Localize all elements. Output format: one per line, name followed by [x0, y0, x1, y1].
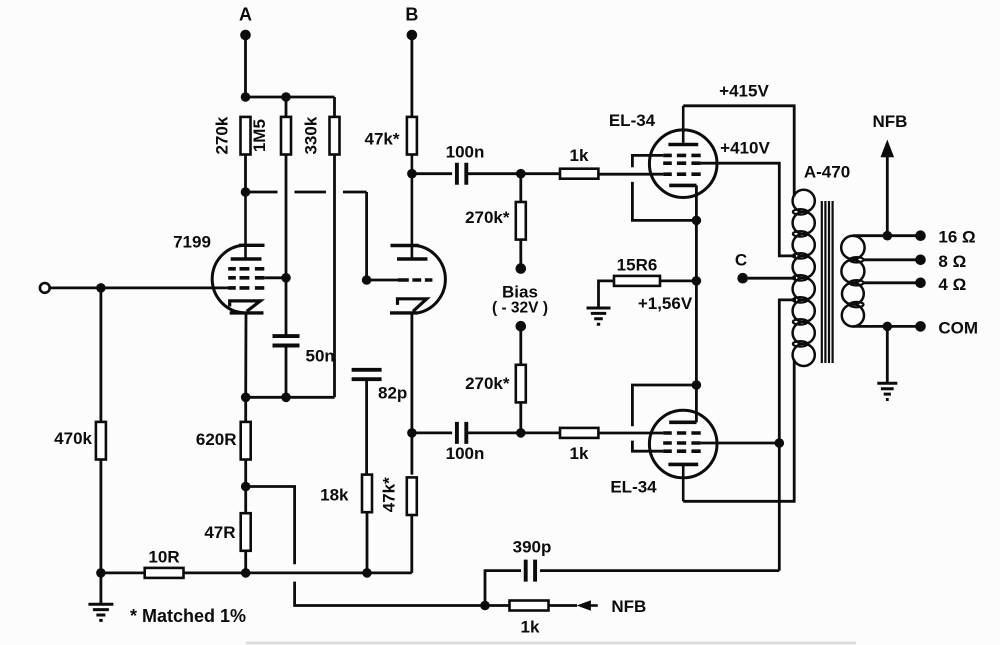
wire 100n to grid node upper [466, 172, 560, 175]
resistor 330k [330, 117, 340, 155]
wire 330k bottom lead [333, 155, 336, 398]
tube V2 EL-34 lower envelope [649, 410, 717, 478]
resistor 18k [362, 475, 372, 513]
7199 pentode grid g3 [228, 267, 264, 271]
svg-text:+410V: +410V [720, 139, 770, 158]
wire 8ohm tap [864, 258, 921, 261]
svg-text:270k*: 270k* [465, 374, 510, 393]
svg-text:100n: 100n [446, 444, 485, 463]
tube U1b 7199 triode envelope [416, 245, 446, 313]
svg-text:EL-34: EL-34 [609, 111, 656, 130]
svg-text:47R: 47R [204, 523, 235, 542]
terminal COM [915, 321, 926, 332]
svg-text:A: A [239, 5, 252, 25]
capacitor 390p [526, 560, 535, 582]
wire pentode cathode lead [244, 313, 247, 397]
resistor 10R [145, 568, 184, 578]
svg-text:47k*: 47k* [365, 130, 400, 149]
wire bottom rail [101, 515, 412, 573]
EL-34 upper grid g1 [663, 172, 701, 176]
node cathode-50n [281, 393, 291, 403]
wire 1k to grid upper [598, 173, 663, 176]
transformer T1 A-470 primary [793, 190, 815, 366]
node triode cathode - 100n tap [407, 428, 417, 438]
wire screen lower tap [701, 300, 796, 571]
svg-text:4 Ω: 4 Ω [938, 275, 966, 294]
wire grid node to 270k upper [519, 174, 522, 202]
wire 270k bottom [244, 155, 247, 193]
wire triode cathode lead [410, 313, 413, 475]
svg-text:COM: COM [938, 318, 978, 337]
terminal bias upper [516, 263, 527, 274]
node cathode junction [241, 393, 251, 403]
wire 82p-18k [365, 379, 368, 474]
capacitor 82p [352, 370, 382, 379]
EL-34 lower plate bar [668, 463, 698, 467]
NFB arrow bottom [577, 600, 591, 611]
wire 15R6 right [660, 279, 696, 282]
wire plate lower [683, 360, 794, 502]
svg-text:50n: 50n [306, 347, 335, 366]
7199 pentode envelope top bar [239, 244, 265, 247]
wire +410V screen upper [701, 163, 796, 256]
wire 470k top lead [100, 288, 103, 422]
node screen lower [775, 438, 785, 448]
svg-text:* Matched 1%: * Matched 1% [130, 606, 246, 626]
svg-text:( - 32V ): ( - 32V ) [492, 300, 548, 317]
wire plate to triode grid (hop gaps) [246, 192, 367, 280]
wire plate to 100n [412, 172, 452, 175]
wire NFB node to 1k [485, 604, 510, 607]
svg-text:15R6: 15R6 [617, 255, 658, 274]
node fb tap [241, 482, 251, 492]
node grid upper [516, 169, 526, 179]
wire EL34 lower cathode lead [695, 385, 698, 422]
7199 triode grid [398, 278, 432, 282]
node A1 [241, 92, 251, 102]
wire COM ground stem [886, 326, 889, 382]
EL-34 upper grid g3 [663, 154, 701, 158]
svg-text:1k: 1k [570, 146, 589, 165]
node cathode-15R6 [692, 276, 702, 286]
resistor 270k* upper [516, 202, 526, 240]
svg-text:+1,56V: +1,56V [638, 294, 693, 313]
wire 270k to grid node lower [519, 402, 522, 433]
resistor 1M5 [281, 117, 291, 155]
svg-text:620R: 620R [196, 430, 237, 449]
svg-text:270k: 270k [213, 116, 232, 154]
wire 330k top lead [333, 97, 336, 117]
wire input [50, 286, 230, 289]
wire EL34 lower suppressor strap (hop over grid lead) [632, 385, 696, 451]
svg-text:+415V: +415V [719, 82, 769, 101]
svg-text:18k: 18k [320, 486, 349, 505]
7199 pentode grid g2 screen [228, 276, 264, 280]
svg-text:EL-34: EL-34 [610, 478, 657, 497]
node rail-47R [241, 568, 251, 578]
wire NFB up [886, 157, 889, 236]
7199 pentode cathode [230, 301, 261, 311]
svg-text:A-470: A-470 [804, 163, 850, 182]
EL-34 upper plate bar [668, 143, 698, 147]
svg-text:C: C [735, 251, 747, 270]
wire bias to 270k lower [519, 326, 522, 365]
node cathode lower join [692, 380, 702, 390]
7199 triode plate lead [411, 155, 414, 260]
node screen pentode [281, 273, 291, 283]
svg-text:1k: 1k [521, 618, 540, 637]
EL-34 upper plate lead [682, 106, 685, 143]
capacitor 50n [273, 336, 300, 345]
node triode plate - 100n tap [407, 169, 417, 179]
wire cathode to 100n [412, 431, 452, 434]
node grid lower [516, 428, 526, 438]
svg-text:270k*: 270k* [465, 208, 510, 227]
resistor 270k [241, 117, 251, 155]
svg-text:10R: 10R [148, 547, 179, 566]
wire triode grid lead [367, 279, 398, 282]
svg-text:47k*: 47k* [380, 477, 399, 512]
ground COM [877, 383, 897, 399]
7199 triode envelope top bar [391, 244, 419, 247]
7199 triode envelope bottom bar [390, 311, 418, 314]
EL-34 lower cathode bar [669, 420, 696, 424]
7199 pentode envelope bottom bar [230, 311, 264, 314]
wire top feed [246, 96, 335, 99]
node gnd-left junction [96, 568, 106, 578]
wire EL34 upper cathode lead [695, 185, 698, 385]
EL-34 upper grid g2 screen [663, 161, 701, 165]
node input junction [96, 283, 106, 293]
EL-34 lower grid g3 [663, 449, 701, 453]
tube U1a 7199 pentode envelope [212, 245, 243, 313]
terminal bias lower [516, 321, 527, 332]
resistor 47k* lower [407, 477, 417, 515]
wire cathode node [246, 396, 335, 399]
wire B down [410, 39, 413, 117]
svg-text:1k: 1k [570, 444, 589, 463]
wire 4ohm tap [864, 281, 921, 284]
wire 15R6 left [599, 281, 615, 307]
svg-text:16 Ω: 16 Ω [938, 228, 975, 247]
resistor 15R6 [614, 276, 660, 286]
resistor 620R [241, 422, 251, 460]
svg-text:1M5: 1M5 [250, 119, 269, 152]
svg-text:330k: 330k [302, 116, 321, 154]
7199 pentode plate bar [231, 257, 262, 261]
wire fb tap route (hop over rail) [246, 487, 485, 606]
svg-text:82p: 82p [378, 384, 407, 403]
wire 100n to grid node lower [466, 431, 560, 434]
EL-34 lower grid g2 screen [663, 441, 701, 445]
EL-34 lower plate lead [682, 464, 685, 501]
7199 pentode plate lead [244, 192, 247, 258]
EL-34 lower grid g1 [663, 431, 701, 435]
wire +415V plate upper [683, 106, 794, 197]
wire C to center tap [748, 277, 796, 280]
wire 50n bottom lead [285, 346, 288, 398]
resistor 470k [96, 422, 106, 460]
wire 620R-47R [244, 460, 247, 514]
resistor 47R [241, 513, 251, 551]
node COM junction [883, 322, 893, 332]
input terminal [40, 283, 50, 293]
capacitor 100n lower [457, 422, 466, 444]
node A2 [281, 92, 291, 102]
resistor 47k* upper [407, 117, 417, 155]
wire 47R bottom [244, 551, 247, 573]
resistor 1k NFB [510, 601, 549, 611]
resistor 270k* lower [516, 365, 526, 403]
resistor 1k lower [560, 428, 598, 438]
wire gnd stem left [100, 573, 103, 604]
wire 16ohm tap [853, 234, 921, 237]
svg-text:390p: 390p [513, 538, 552, 557]
node plate pentode [241, 187, 251, 197]
wire EL34 upper suppressor strap (hop over grid lead) [632, 155, 696, 220]
scan artifact line [246, 642, 856, 645]
wire NFB stub [549, 604, 578, 607]
EL-34 upper cathode bar [669, 184, 696, 188]
terminal 8ohm [915, 254, 926, 265]
node suppressor-cathode upper [692, 216, 702, 226]
wire 390p line [485, 571, 779, 606]
7199 triode cathode [398, 299, 427, 312]
svg-text:B: B [405, 5, 418, 25]
resistor 1k upper [560, 169, 598, 179]
transformer core [822, 201, 833, 363]
terminal A [240, 30, 251, 41]
NFB arrow top [881, 140, 895, 158]
node NFB takeoff [883, 231, 893, 241]
wire 1k to grid lower [598, 432, 663, 435]
wire pentode screen lead [264, 276, 286, 279]
svg-text:470k: 470k [54, 429, 92, 448]
wire A down [244, 39, 247, 97]
wire 470k bottom lead [100, 460, 103, 573]
tube V1 EL-34 upper envelope [649, 130, 717, 198]
wire 18k bottom [366, 512, 369, 573]
svg-text:NFB: NFB [611, 597, 646, 616]
ground cathode [587, 308, 611, 324]
wire COM tap [853, 325, 921, 328]
terminal B [407, 30, 418, 41]
transformer T1 secondary [841, 236, 864, 327]
terminal C [737, 273, 748, 284]
node NFB junction [480, 601, 490, 611]
wire 1M5 bottom lead [285, 155, 288, 337]
terminal 16ohm [915, 230, 926, 241]
svg-text:8 Ω: 8 Ω [938, 252, 966, 271]
node triode grid [362, 275, 372, 285]
svg-text:7199: 7199 [173, 233, 211, 252]
7199 triode plate bar [397, 257, 428, 261]
ground input [88, 604, 113, 620]
wire to 620R [244, 397, 247, 422]
terminal 4ohm [915, 278, 926, 289]
7199 pentode grid g1 [228, 286, 264, 290]
svg-text:NFB: NFB [873, 112, 908, 131]
node rail-18k [362, 568, 372, 578]
wire 270k to bias upper [519, 240, 522, 269]
wire 1M5 top lead [285, 97, 288, 117]
capacitor 100n upper [457, 163, 466, 185]
svg-text:100n: 100n [446, 143, 485, 162]
